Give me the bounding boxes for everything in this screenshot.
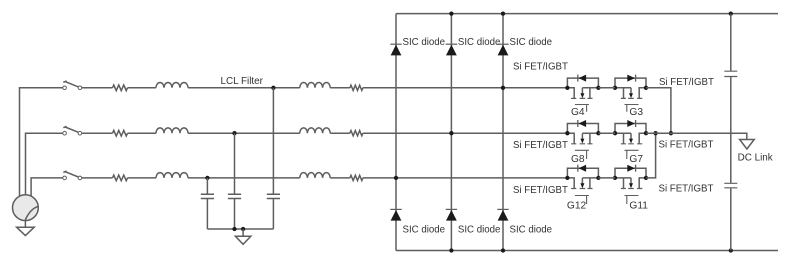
diode triangle of Q11 (627, 165, 635, 172)
wire cap C3 to star bus (206, 199, 208, 230)
svg-text:DC Link: DC Link (738, 153, 773, 164)
junction row1 drop on row2 (669, 131, 673, 135)
diode cathode bar of Q7 (635, 120, 637, 127)
wire between Q4 and Q3 (598, 87, 615, 89)
body arrow of Q8 (580, 139, 584, 144)
svg-text:G4: G4 (571, 107, 585, 118)
antiparallel diode bridge wire of Q8 (567, 124, 598, 134)
junction bottom rail leg2 (449, 248, 453, 252)
inductor LB2 (300, 128, 330, 133)
MOSFET channel bars of Q11 (621, 188, 642, 190)
wire phase C (82, 177, 113, 179)
capacitor C2 (228, 194, 241, 198)
SiC diode D6 bottom (497, 208, 508, 210)
junction bottom rail DC link (729, 248, 733, 252)
antiparallel diode bridge wire of Q7 (615, 124, 646, 134)
wire between Q12 and Q11 (598, 177, 615, 179)
svg-text:Si FET/IGBT: Si FET/IGBT (659, 184, 714, 195)
diode triangle of Q8 (579, 120, 587, 127)
gate electrode of Q4 (575, 105, 589, 112)
SiC diode D3 top (497, 43, 508, 45)
svg-text:SIC diode: SIC diode (403, 37, 446, 48)
wire phase A (82, 87, 113, 89)
wire cap C1 to star bus (272, 199, 274, 230)
DC link rail wire lower (730, 188, 732, 251)
resistor RB2 (350, 131, 363, 136)
SiC diode D2 top (446, 43, 457, 45)
Si FET/IGBT switch Q7 (613, 120, 648, 159)
wire phase A (128, 87, 157, 89)
node tap phase cap C3 (205, 176, 209, 180)
breaker switch SB (63, 131, 67, 135)
svg-text:SIC diode: SIC diode (458, 225, 501, 236)
inductor LC2 (300, 173, 330, 178)
SiC diode D4 bottom (390, 208, 401, 210)
diode triangle of Q7 (627, 120, 635, 127)
terminal junction dots of Q4 (565, 86, 569, 90)
inductor LA1 (156, 83, 188, 88)
MOSFET terminals of Q7 (615, 133, 646, 144)
SiC diode D5 bottom (446, 208, 457, 210)
svg-text:Si FET/IGBT: Si FET/IGBT (513, 140, 568, 151)
gate electrode of Q11 (625, 196, 639, 205)
svg-text:Si FET/IGBT: Si FET/IGBT (659, 140, 714, 151)
DC link arrow (740, 140, 755, 150)
node tap phase cap C2 (232, 131, 236, 135)
svg-text:G7: G7 (629, 154, 643, 165)
terminal junction dots of Q12 (565, 176, 569, 180)
MOSFET channel bars of Q8 (571, 143, 592, 145)
resistor RA2 (350, 85, 363, 90)
node phase A to leg3 (501, 86, 505, 90)
svg-text:Si FET/IGBT: Si FET/IGBT (659, 77, 714, 88)
node phase B to leg2 (449, 131, 453, 135)
wire cap C2 to star bus (234, 199, 236, 230)
terminal junction dots of Q8 (565, 131, 569, 135)
diode cathode bar of Q8 (577, 120, 579, 127)
body arrow of Q11 (629, 183, 633, 188)
wire phase C to bridge (363, 177, 568, 179)
3-phase AC source G1 (13, 195, 39, 221)
breaker switch SC (63, 176, 67, 180)
DC- bottom rail wire (396, 250, 778, 252)
Si FET/IGBT switch Q12 (565, 165, 600, 204)
wire row3 to row2 node (646, 133, 656, 178)
diode cathode bar of Q12 (577, 165, 579, 172)
Si FET/IGBT switch Q4 (565, 75, 600, 112)
bridge leg wire 1 (395, 14, 397, 251)
diode cathode bar of Q3 (635, 75, 637, 82)
junction bottom rail leg3 (501, 248, 505, 252)
terminal junction dots of Q3 (644, 86, 648, 90)
antiparallel diode bridge wire of Q3 (615, 78, 646, 88)
MOSFET terminals of Q12 (567, 178, 598, 189)
star-point bus wire (207, 228, 273, 230)
DC link rail wire upper (730, 14, 732, 72)
junction on star bus (232, 227, 236, 231)
wire phase A (188, 87, 300, 89)
wire phase B (128, 132, 157, 134)
wire phase B (330, 132, 350, 134)
wire phase B (188, 132, 300, 134)
Si FET/IGBT switch Q11 (613, 165, 648, 204)
bridge leg wire 2 (450, 14, 452, 251)
gate electrode of Q8 (575, 150, 589, 159)
antiparallel diode bridge wire of Q12 (567, 168, 598, 178)
breaker switch SA (63, 86, 67, 90)
MOSFET channel bars of Q3 (621, 97, 642, 99)
svg-text:Si FET/IGBT: Si FET/IGBT (513, 185, 568, 196)
terminal junction dots of Q7 (644, 131, 648, 135)
node star ground tap (241, 227, 245, 231)
inductor LC1 (156, 173, 188, 178)
wire phase B from source (26, 133, 63, 195)
svg-text:G11: G11 (629, 201, 648, 212)
diode cathode bar of Q11 (635, 165, 637, 172)
wire row1 to row2 node (646, 88, 671, 133)
diode triangle of Q3 (627, 75, 635, 82)
MOSFET channel bars of Q7 (621, 143, 642, 145)
MOSFET terminals of Q8 (567, 133, 598, 144)
MOSFET terminals of Q3 (615, 88, 646, 99)
body arrow of Q4 (580, 93, 584, 98)
wire cap tap C1 (272, 88, 274, 194)
inductor LB1 (156, 128, 188, 133)
inductor LA2 (300, 83, 330, 88)
node phase C to leg1 (394, 176, 398, 180)
gate electrode of Q7 (625, 150, 639, 159)
diode triangle of Q12 (579, 165, 587, 172)
capacitor C3 (201, 194, 214, 198)
wire cap tap C3 (206, 178, 208, 194)
DC+ top rail wire (396, 13, 778, 15)
wire phase C (188, 177, 300, 179)
bridge leg wire 3 (502, 14, 504, 251)
antiparallel diode bridge wire of Q11 (615, 168, 646, 178)
resistor RC1 (113, 175, 128, 181)
MOSFET channel bars of Q12 (571, 188, 592, 190)
wire cap tap C2 (234, 133, 236, 194)
diode cathode bar of Q4 (577, 75, 579, 82)
capacitor C1 (267, 194, 280, 198)
gate electrode of Q12 (575, 196, 589, 205)
resistor RC2 (350, 175, 363, 180)
Si FET/IGBT switch Q3 (613, 75, 648, 112)
wire phase B (82, 132, 113, 134)
SiC diode D1 top (390, 43, 401, 45)
antiparallel diode bridge wire of Q4 (567, 78, 598, 88)
ground at filter star point (242, 229, 244, 236)
svg-text:SIC diode: SIC diode (510, 37, 553, 48)
wire phase A to bridge (363, 87, 568, 89)
Si FET/IGBT switch Q8 (565, 120, 600, 159)
junction row3 rise on row2 (653, 131, 657, 135)
wire phase C from source (31, 178, 63, 196)
svg-text:SIC diode: SIC diode (510, 225, 553, 236)
wire phase A from source (20, 88, 63, 197)
svg-text:SIC diode: SIC diode (403, 225, 446, 236)
wire phase C (128, 177, 157, 179)
svg-text:Si FET/IGBT: Si FET/IGBT (513, 61, 568, 72)
ground at AC source (24, 221, 26, 227)
svg-text:LCL Filter: LCL Filter (221, 76, 264, 87)
body arrow of Q7 (629, 139, 633, 144)
svg-text:G12: G12 (567, 201, 587, 212)
svg-text:G3: G3 (629, 107, 643, 118)
MOSFET terminals of Q11 (615, 178, 646, 189)
diode triangle of Q4 (579, 75, 587, 82)
MOSFET channel bars of Q4 (571, 97, 592, 99)
junction top rail leg3 (501, 11, 505, 15)
resistor RB1 (113, 130, 128, 136)
junction top rail leg2 (449, 11, 453, 15)
junction top rail DC link (729, 11, 733, 15)
node tap phase cap C1 (271, 86, 275, 90)
wire phase B to bridge (363, 132, 568, 134)
wire phase A (330, 87, 350, 89)
DC link rail wire middle (730, 77, 732, 184)
wire row2 to DC link tap (646, 133, 747, 139)
body arrow of Q3 (629, 93, 633, 98)
wire phase C (330, 177, 350, 179)
wire between Q8 and Q7 (598, 132, 615, 134)
body arrow of Q12 (580, 183, 584, 188)
terminal junction dots of Q11 (644, 176, 648, 180)
svg-text:SIC diode: SIC diode (458, 37, 501, 48)
gate electrode of Q3 (625, 105, 639, 112)
svg-text:G8: G8 (571, 154, 585, 165)
resistor RA1 (113, 85, 128, 91)
capacitor Cdc1 (724, 71, 737, 76)
capacitor Cdc2 (724, 183, 737, 188)
MOSFET terminals of Q4 (567, 88, 598, 99)
